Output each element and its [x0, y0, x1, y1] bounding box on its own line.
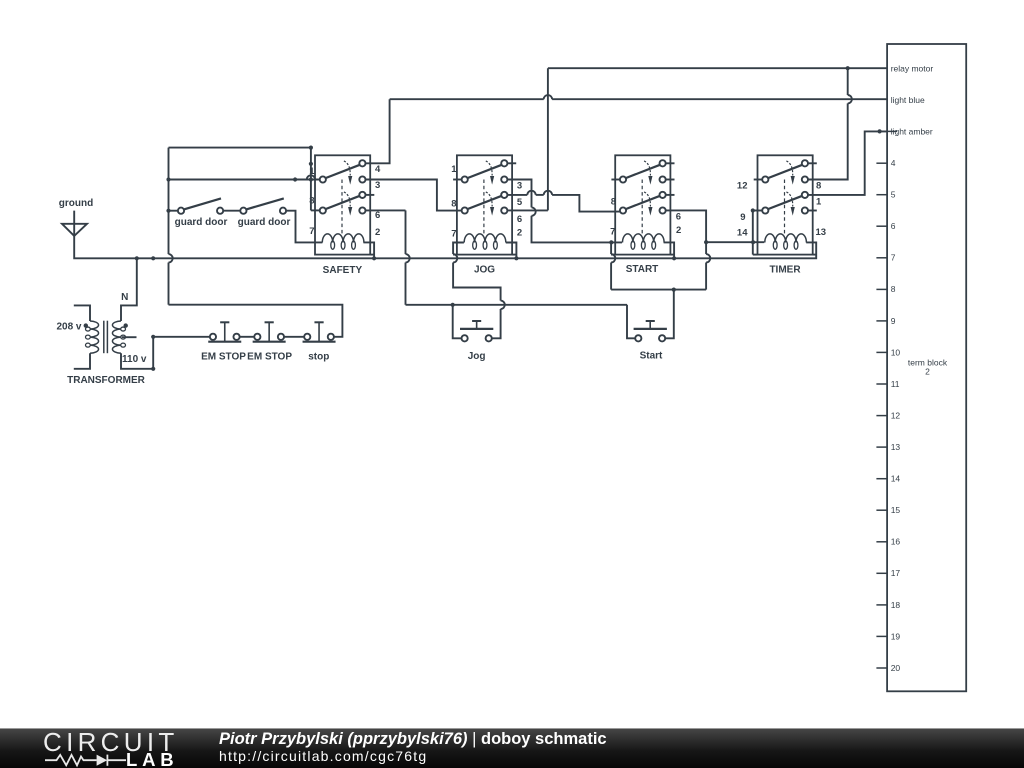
terminal block labels [891, 63, 934, 673]
label TRANSFORMER [67, 375, 146, 386]
wire SAFETY pin 6 down to pushbutton feed [366, 210, 410, 304]
svg-text:20: 20 [891, 663, 901, 673]
node JOG coil on bus [514, 256, 518, 260]
wire light amber to TIMER pin 1 [807, 131, 887, 195]
svg-text:14: 14 [737, 228, 748, 239]
svg-text:3: 3 [375, 180, 380, 191]
svg-text:7: 7 [309, 226, 314, 237]
node light amber seam [878, 129, 882, 133]
svg-text:18: 18 [891, 600, 901, 610]
svg-text:208 v: 208 v [56, 322, 81, 333]
node SAFETY coil on bus [372, 256, 376, 260]
node riser to guard door [166, 209, 170, 213]
svg-text:11: 11 [891, 379, 900, 389]
label N [121, 292, 128, 303]
label stop [308, 352, 329, 363]
svg-text:8: 8 [891, 284, 896, 294]
svg-text:19: 19 [891, 631, 901, 641]
terminal block ticks [876, 163, 887, 668]
wire secondary center tap stub [122, 336, 137, 338]
pushbutton stop [303, 322, 336, 341]
svg-text:9: 9 [891, 316, 896, 326]
wire EM STOP 2 to stop [284, 336, 304, 338]
wire relay motor [548, 67, 887, 69]
svg-text:guard door: guard door [238, 217, 291, 228]
wire guard door 1 to guard door 2 [223, 210, 240, 212]
node riser to SAFETY pin1 wire [166, 177, 170, 181]
svg-text:EM STOP: EM STOP [201, 352, 246, 363]
svg-text:110 v: 110 v [122, 354, 147, 365]
node START coil on bus [672, 256, 676, 260]
svg-text:ground: ground [59, 198, 93, 209]
svg-text:8: 8 [816, 181, 821, 192]
svg-text:Jog: Jog [468, 351, 486, 362]
svg-text:N: N [121, 292, 128, 303]
relay JOG [453, 155, 516, 254]
svg-text:1: 1 [451, 164, 457, 175]
relay TIMER pin labels [737, 181, 826, 239]
attribution text [219, 731, 607, 748]
relay coil exit tabs [370, 242, 816, 254]
node Jog branch [451, 303, 455, 307]
svg-text:13: 13 [891, 442, 901, 452]
ground label [59, 198, 93, 209]
ground [62, 224, 87, 236]
svg-text:1: 1 [309, 166, 315, 177]
wire SAFETY pin 4 to light blue [366, 99, 390, 163]
switch guard door 1 [178, 198, 223, 213]
svg-text:17: 17 [891, 568, 901, 578]
wire START pin 6 to TIMER coil [666, 210, 764, 242]
svg-text:15: 15 [891, 505, 901, 515]
svg-text:8: 8 [309, 196, 314, 207]
svg-text:16: 16 [891, 537, 901, 547]
label guard door 2 [238, 217, 291, 228]
svg-text:TRANSFORMER: TRANSFORMER [67, 375, 146, 386]
wire primary bottom lead [74, 353, 90, 369]
switch guard door 2 [240, 198, 286, 213]
node bus seam near N [151, 256, 155, 260]
wire JOG coil right to bus [506, 243, 517, 259]
wire seal-in horizontal [611, 289, 706, 291]
svg-text:4: 4 [891, 158, 896, 168]
label SAFETY [323, 265, 363, 276]
wire secondary bottom lead [121, 353, 153, 369]
svg-text:10: 10 [891, 347, 901, 357]
wire riser to SAFETY pin 8 [311, 148, 320, 211]
node riser crossing pin1 wire [309, 177, 313, 181]
svg-text:8: 8 [611, 196, 616, 207]
wire Start button left [627, 305, 635, 339]
node START pin 7 junction [609, 240, 613, 244]
label 208 v [56, 322, 81, 333]
wire seal-in branch down [706, 242, 710, 289]
svg-text:SAFETY: SAFETY [323, 265, 363, 276]
wire EM row from tap to EM STOP 1 [153, 336, 210, 338]
node top feed corner [309, 146, 313, 150]
wire stop to riser [169, 305, 343, 337]
node TIMER pin 9 junction [751, 208, 755, 212]
wire JOG pin 7 to Jog button [453, 243, 505, 339]
svg-text:6: 6 [517, 214, 522, 225]
svg-text:9: 9 [740, 212, 745, 223]
CircuitLab logo text [43, 729, 179, 755]
wire SAFETY pin 3 to JOG pin 8 [366, 180, 462, 211]
pushbutton EM STOP 1 [208, 322, 241, 341]
terminal block box [887, 44, 966, 691]
relay START pin labels [610, 196, 681, 237]
wire EM STOP 1 to EM STOP 2 [240, 336, 255, 338]
svg-text:2: 2 [517, 228, 522, 239]
transformer secondary winding [112, 321, 125, 353]
svg-text:relay motor: relay motor [891, 63, 934, 73]
wire relay motor drop to TIMER pin 8 [807, 68, 852, 179]
wire light blue [390, 95, 887, 99]
svg-text:Start: Start [640, 350, 663, 361]
svg-text:1: 1 [816, 197, 822, 208]
pushbutton EM STOP 2 [253, 322, 286, 341]
wire to guard door 1 [169, 210, 178, 212]
wire Jog button left [453, 305, 462, 339]
wire 110v riser to EM STOP row [152, 337, 154, 369]
svg-text:6: 6 [375, 210, 380, 221]
node seam on pin1 wire [293, 177, 297, 181]
wire relay motor riser [547, 68, 549, 210]
svg-text:6: 6 [676, 212, 681, 223]
wire JOG pin 5 to START pin 8 [507, 191, 619, 212]
wire top feed to SAFETY [169, 147, 311, 149]
wire hot riser left (guard door chain) [169, 148, 173, 305]
wire to SAFETY pin 1 [169, 175, 320, 179]
svg-text:4: 4 [375, 164, 381, 175]
svg-text:8: 8 [451, 198, 456, 209]
wire SAFETY coil right to bus [363, 242, 374, 258]
transformer primary winding [86, 321, 99, 353]
label EM STOP 2 [247, 352, 292, 363]
wire secondary top lead to N [121, 258, 137, 321]
label EM STOP 1 [201, 352, 246, 363]
label Jog [468, 351, 486, 362]
transformer secondary phase dot [124, 323, 128, 327]
svg-text:2: 2 [676, 225, 681, 236]
pushbutton Jog [460, 321, 493, 341]
label START [626, 264, 659, 275]
relay JOG pin labels [451, 164, 523, 239]
terminal block extended tick light amber [876, 130, 897, 132]
relay SAFETY [315, 155, 374, 254]
label 110 v [122, 354, 147, 365]
svg-text:13: 13 [816, 227, 827, 238]
wire START coil right to bus [664, 242, 675, 258]
relay SAFETY pin labels [309, 164, 381, 238]
svg-text:7: 7 [610, 227, 615, 238]
label TIMER [769, 264, 801, 275]
svg-text:TIMER: TIMER [769, 264, 801, 275]
svg-text:START: START [626, 264, 659, 275]
svg-text:12: 12 [737, 181, 748, 192]
transformer core [104, 321, 108, 354]
svg-text:2: 2 [925, 367, 930, 377]
svg-text:6: 6 [891, 221, 896, 231]
label term block 2 [908, 357, 948, 376]
wire guard door 2 to SAFETY coil pin 7 [286, 211, 322, 243]
label guard door 1 [175, 217, 228, 228]
svg-text:guard door: guard door [175, 217, 228, 228]
svg-text:light amber: light amber [891, 127, 933, 137]
svg-text:5: 5 [891, 190, 896, 200]
svg-text:JOG: JOG [474, 265, 495, 276]
svg-text:12: 12 [891, 410, 901, 420]
node riser seam [309, 162, 313, 166]
wire neutral bus from ground to TIMER pin 13 [74, 211, 816, 259]
node START pin6 branch [704, 240, 708, 244]
label JOG [474, 265, 495, 276]
svg-text:EM STOP: EM STOP [247, 352, 292, 363]
svg-text:7: 7 [891, 253, 896, 263]
node N junction on bus [135, 256, 139, 260]
svg-text:7: 7 [451, 229, 456, 240]
CircuitLab logo resistor-diode glyph [0, 729, 200, 768]
relay TIMER [754, 155, 817, 254]
wire JOG pin 6 to relay motor riser [507, 209, 548, 211]
pushbutton Start [634, 321, 667, 341]
wire TIMER pin 9 to pin 14 [753, 211, 762, 243]
relay START [611, 155, 674, 254]
wire pushbutton feed Jog/Start [406, 304, 628, 306]
svg-text:3: 3 [517, 181, 522, 192]
node relay motor branch [846, 66, 850, 70]
svg-text:5: 5 [517, 197, 523, 208]
node Start button right junction [672, 288, 676, 292]
svg-text:2: 2 [375, 227, 380, 238]
wire primary top lead [74, 305, 90, 321]
wire Start button right [665, 290, 674, 339]
node secondary bottom corner [151, 367, 155, 371]
svg-text:14: 14 [891, 474, 901, 484]
label Start [640, 350, 663, 361]
svg-text:light blue: light blue [891, 95, 925, 105]
transformer primary phase dot [84, 323, 88, 327]
wire START pin7 drop [611, 242, 615, 289]
wire JOG pin 3 to START pin 7 [507, 180, 622, 243]
node TIMER coil junction [751, 240, 755, 244]
svg-text:stop: stop [308, 352, 329, 363]
node 110v tap junction [151, 335, 155, 339]
